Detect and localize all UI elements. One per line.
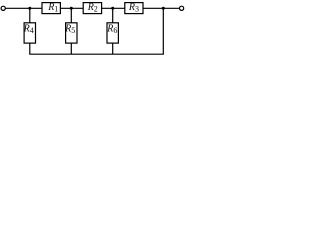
svg-text:R6: R6 <box>106 24 117 36</box>
svg-text:R3: R3 <box>128 2 139 14</box>
svg-text:R4: R4 <box>23 24 34 36</box>
svg-text:R2: R2 <box>87 2 98 14</box>
svg-text:R5: R5 <box>64 24 75 36</box>
svg-text:R1: R1 <box>47 2 58 14</box>
